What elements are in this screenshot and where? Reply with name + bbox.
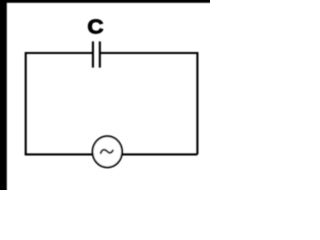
svg-text:C: C (87, 17, 103, 39)
